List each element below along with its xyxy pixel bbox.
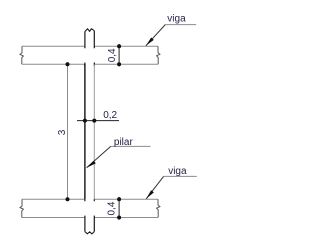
column P1 right edge below beam B2 — [93, 199, 95, 231]
column P1 (pilar) left edge above beam B1 — [84, 32, 86, 67]
leader L2 diagonal — [87, 146, 111, 167]
svg-text:0,2: 0,2 — [103, 110, 117, 121]
dimension D3 end dot left — [83, 119, 87, 123]
leader L3 underline (bottom viga label) — [164, 175, 197, 177]
beam B2 right break symbol — [157, 199, 160, 217]
dimension D1 end dot bottom — [117, 62, 121, 66]
svg-text:viga: viga — [167, 14, 186, 25]
column P1 bottom break symbol — [85, 232, 94, 234]
leader L3 diagonal — [146, 176, 163, 198]
svg-text:pilar: pilar — [114, 137, 134, 148]
dimension D3 line (0,2 column width) — [77, 120, 119, 122]
leader L1 diagonal — [146, 25, 166, 46]
column P1 right edge between beams — [93, 64, 95, 199]
dimension D4 line (0,4 bottom beam height) — [118, 197, 120, 220]
dimension D2 end dot top — [66, 62, 70, 66]
beam B1 (top viga) top edge — [22, 45, 158, 47]
dimension D3 end dot right — [92, 119, 96, 123]
beam B2 (bottom viga) top edge — [22, 198, 158, 200]
column P1 left edge below beam B2 — [84, 199, 86, 231]
dimension D2 end dot bottom — [66, 197, 70, 201]
svg-text:viga: viga — [168, 166, 187, 177]
leader L2 arrowhead — [87, 161, 96, 168]
leader L3 arrowhead — [146, 190, 154, 199]
dimension D4 end dot top — [117, 197, 121, 201]
svg-text:0,4: 0,4 — [106, 201, 117, 215]
dimension D1 end dot top — [117, 44, 121, 48]
column P1 right edge above beam B1 — [93, 31, 95, 66]
beam B2 (bottom viga) bottom edge — [22, 217, 158, 219]
dimension D2 line (3 column clear height) — [67, 62, 69, 201]
dimension D4 end dot bottom — [117, 216, 121, 220]
beam B1 right break symbol — [157, 46, 160, 64]
column P1 left edge between beams — [84, 64, 86, 199]
beam B2 left break symbol — [20, 199, 23, 217]
dimension D1 line (0,4 top beam height) — [118, 44, 120, 67]
leader L1 underline (top viga label) — [165, 24, 196, 26]
column P1 top break symbol — [85, 29, 94, 32]
leader L2 underline (pilar label) — [111, 145, 151, 147]
beam B1 left break symbol — [20, 46, 23, 64]
leader L1 arrowhead — [146, 38, 154, 46]
beam B1 (top viga) bottom edge — [22, 63, 158, 65]
svg-text:3: 3 — [57, 129, 68, 135]
svg-text:0,4: 0,4 — [107, 48, 118, 62]
